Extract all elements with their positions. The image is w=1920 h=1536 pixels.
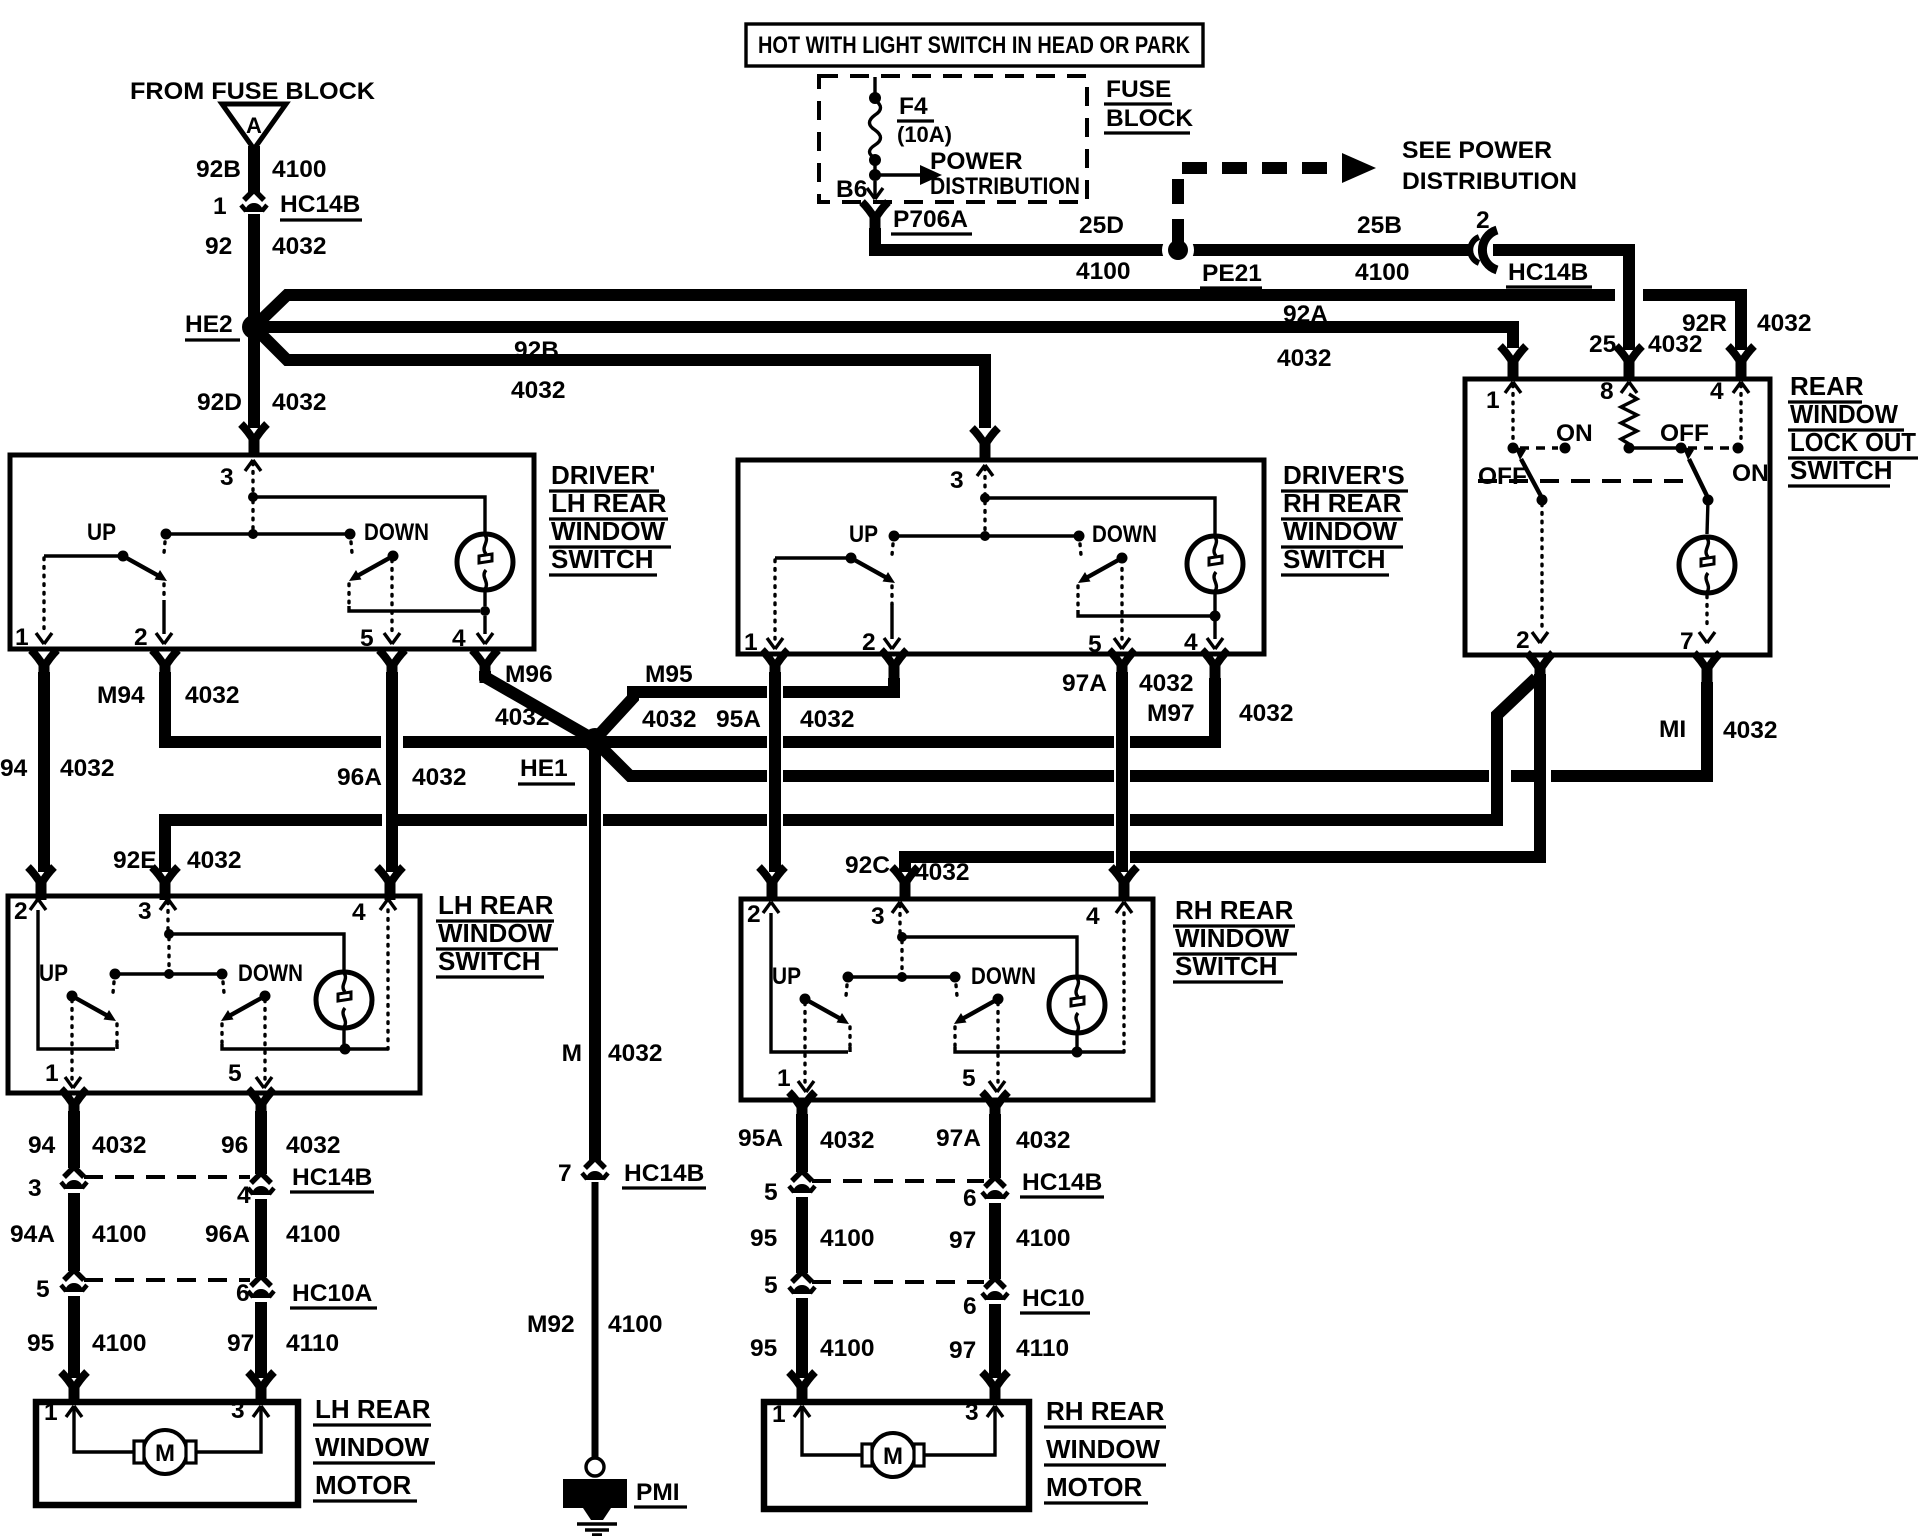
wire lamp to pin 4 [1213, 616, 1216, 639]
indicator lamp (lockout switch) [1679, 537, 1735, 593]
svg-text:4100: 4100 [820, 1225, 875, 1252]
junction dot [869, 154, 881, 166]
svg-text:4110: 4110 [1016, 1335, 1069, 1362]
wire 94 4032 [68, 1111, 80, 1168]
svg-text:7: 7 [1680, 628, 1694, 655]
svg-text:HC10A: HC10A [292, 1280, 373, 1307]
svg-text:96: 96 [221, 1132, 248, 1159]
svg-text:WINDOW: WINDOW [1046, 1434, 1161, 1464]
svg-text:5: 5 [962, 1065, 976, 1092]
connector Y into LH rear switch pin 4 [377, 867, 403, 900]
svg-text:4: 4 [1184, 629, 1198, 656]
svg-text:UP: UP [87, 519, 116, 546]
svg-text:LH REAR: LH REAR [315, 1394, 431, 1424]
pin 2 arrow [30, 899, 46, 910]
connector 5 HC10A (in-line) [61, 1270, 87, 1292]
svg-text:4032: 4032 [1277, 345, 1332, 372]
svg-text:(10A): (10A) [897, 122, 952, 147]
node center feed [248, 529, 258, 539]
node lamp bottom junction [1210, 611, 1221, 622]
svg-text:F4: F4 [899, 93, 928, 120]
svg-text:4032: 4032 [1239, 700, 1294, 727]
pin 2 arrow [884, 638, 900, 649]
switch DOWN contact (RH rear) [950, 972, 1004, 1025]
svg-text:5: 5 [36, 1276, 50, 1303]
svg-text:5: 5 [1088, 631, 1102, 658]
svg-text:4110: 4110 [286, 1330, 339, 1357]
wire lamp to pin 4 [483, 616, 486, 634]
pin 2 arrow [156, 633, 172, 644]
connector 2 HC14B (in-line on wire 25B) [1470, 237, 1479, 263]
pin 7 arrow [1699, 632, 1715, 643]
svg-text:FUSE: FUSE [1106, 76, 1171, 103]
connector Y below lockout pin 2 [1527, 653, 1553, 686]
svg-text:92B: 92B [514, 337, 559, 364]
svg-text:LOCK OUT: LOCK OUT [1790, 427, 1916, 457]
svg-text:HC14B: HC14B [292, 1164, 372, 1191]
pin 4 arrow [380, 899, 396, 910]
svg-text:P706A: P706A [893, 206, 968, 233]
svg-text:2: 2 [14, 898, 28, 925]
wire UP blade tip to pin2 line [115, 1024, 118, 1044]
pin 4 arrow [1116, 902, 1132, 913]
svg-text:4032: 4032 [185, 682, 240, 709]
connector triangle A (from fuse block) [222, 104, 286, 149]
svg-text:4032: 4032 [800, 706, 855, 733]
pin 1 arrow [767, 638, 783, 649]
wire 95 4100 [68, 1296, 80, 1378]
wire lamp to pin 7 [1705, 596, 1708, 629]
wire 92D 4032 (HE2 down to LH driver switch) [248, 334, 260, 428]
svg-text:5: 5 [764, 1179, 778, 1206]
wire to lamp top [169, 934, 344, 972]
wire 96A 4032 (driver LH pin5 down to LH switch pin 4) [386, 672, 398, 872]
motor internal wiring [802, 1409, 995, 1455]
connector Y below driver LH pin 5 [379, 650, 405, 683]
motor M1 symbol [134, 1430, 196, 1474]
wire 96 4032 [255, 1111, 267, 1174]
arrow to POWER DISTRIBUTION [875, 173, 925, 176]
pin 1 arrow [66, 1406, 82, 1417]
svg-text:HC14B: HC14B [280, 191, 360, 218]
svg-text:4100: 4100 [1355, 259, 1410, 286]
wire 92B 4100 [248, 146, 260, 192]
wire pin 2 to UP lower contact [38, 910, 115, 1049]
svg-text:3: 3 [138, 898, 152, 925]
pin 2 arrow [1532, 632, 1548, 643]
connector Y into LH rear switch pin 3 [152, 867, 178, 900]
wire 97 4100 [989, 1203, 1001, 1279]
wire right blade to lamp [1707, 500, 1708, 534]
connector Y below RH switch pin 1 [789, 1092, 815, 1125]
node junction below pin 3 [248, 492, 258, 502]
svg-text:3: 3 [28, 1175, 42, 1202]
svg-text:BLOCK: BLOCK [1106, 105, 1193, 132]
svg-text:4032: 4032 [511, 377, 566, 404]
wire DOWN blade tip to lamp bottom [953, 1027, 956, 1047]
pin 1 arrow [794, 1406, 810, 1417]
svg-text:95A: 95A [738, 1125, 783, 1152]
switch UP contact (LH rear) [67, 969, 121, 1022]
connector Y into RH rear switch pin 2 [759, 867, 785, 900]
wire UP blade tip to pin2 line [848, 1027, 851, 1047]
wire lamp junction to pin 4 [1077, 1050, 1124, 1053]
svg-text:M: M [562, 1040, 582, 1067]
wire lamp junction to pin 4 [345, 1047, 388, 1050]
wire 92E 4032 (lockout pin2 via diagonal, left to LH switch pin 3) [1130, 678, 1536, 820]
svg-text:1: 1 [744, 629, 758, 656]
dashed connector boundary HC14B (LH) [84, 1175, 250, 1179]
connector HC14B pin 1 [241, 190, 267, 212]
svg-text:ON: ON [1732, 460, 1769, 487]
pin 4 arrow [477, 633, 493, 644]
svg-text:B6: B6 [836, 176, 867, 203]
connector 6 HC14B (in-line, RH) [982, 1177, 1008, 1199]
connector 6 HC10A (in-line) [248, 1276, 274, 1298]
wire M97 4032 (HE1 right to driver RH pin 4) [603, 736, 767, 748]
connector Y below driver RH pin 5 [1109, 650, 1135, 683]
node center feed [164, 969, 174, 979]
connector Y into LH driver switch pin 3 [241, 424, 267, 457]
svg-text:WINDOW: WINDOW [551, 516, 666, 546]
wire pin 1 to UP pivot [775, 556, 851, 559]
wire 95 4100 lower [796, 1298, 808, 1378]
node lamp bottom junction [480, 606, 490, 616]
wire to lamp top [253, 497, 485, 533]
junction dot [869, 92, 881, 104]
svg-text:4100: 4100 [820, 1335, 875, 1362]
svg-text:2: 2 [1476, 207, 1490, 234]
svg-text:HE2: HE2 [185, 311, 233, 338]
pin 2 arrow [763, 902, 779, 913]
motor internal wiring [74, 1409, 261, 1452]
svg-text:DOWN: DOWN [971, 963, 1036, 990]
svg-text:M92: M92 [527, 1311, 575, 1338]
pin 8 arrow [1621, 382, 1637, 393]
dashed connector boundary HC14B (RH) [812, 1179, 984, 1183]
svg-text:HC14B: HC14B [1022, 1169, 1102, 1196]
svg-text:4032: 4032 [60, 755, 115, 782]
wire 94 4032 (driver LH pin1 down to LH switch pin 2) [38, 672, 50, 872]
svg-text:HC10: HC10 [1022, 1285, 1085, 1312]
connector P706A [862, 202, 888, 235]
svg-text:POWER: POWER [930, 148, 1023, 175]
svg-text:1: 1 [15, 624, 29, 651]
motor M2 symbol [862, 1433, 924, 1477]
svg-text:OFF: OFF [1478, 463, 1527, 490]
connector 6 HC10 (in-line, RH) [982, 1278, 1008, 1300]
svg-text:ON: ON [1556, 420, 1593, 447]
svg-text:6: 6 [236, 1280, 250, 1307]
pin 5 arrow [989, 1081, 1005, 1092]
svg-text:M94: M94 [97, 682, 145, 709]
svg-text:M97: M97 [1147, 700, 1195, 727]
svg-text:WINDOW: WINDOW [315, 1432, 430, 1462]
svg-text:7: 7 [558, 1160, 572, 1187]
connector 5 HC14B (in-line, RH) [789, 1171, 815, 1193]
connector Y below driver RH pin 1 [762, 650, 788, 683]
blade left (lockout) [1521, 459, 1542, 498]
node junction below pin 3 [897, 932, 907, 942]
wire DOWN pivot to pin 5 [996, 1003, 999, 1084]
indicator lamp (LH rear switch) [316, 972, 372, 1028]
svg-text:A: A [246, 113, 262, 138]
switch box S1 driver LH rear window switch [10, 455, 534, 649]
fuse block dashed box [819, 76, 1087, 202]
svg-text:4100: 4100 [1016, 1225, 1071, 1252]
wire UP blade to pin 2 [162, 584, 165, 600]
connector Y into lockout pin 4 [1728, 346, 1754, 379]
node lamp bottom junction [1072, 1047, 1083, 1058]
svg-text:97: 97 [949, 1337, 976, 1364]
svg-text:97A: 97A [936, 1125, 981, 1152]
svg-text:4100: 4100 [92, 1221, 147, 1248]
svg-text:RH REAR: RH REAR [1283, 488, 1402, 518]
svg-text:4: 4 [1710, 378, 1724, 405]
pin 1 arrow [65, 1077, 81, 1088]
svg-text:HE1: HE1 [520, 755, 568, 782]
svg-text:WINDOW: WINDOW [1283, 516, 1398, 546]
svg-text:WINDOW: WINDOW [438, 918, 553, 948]
svg-text:1: 1 [1486, 387, 1500, 414]
wire UP pivot to pin 1 [70, 1000, 73, 1080]
svg-text:1: 1 [45, 1060, 59, 1087]
svg-text:92: 92 [205, 233, 232, 260]
wire DOWN blade to corner to lamp bottom [347, 584, 350, 606]
svg-text:97: 97 [227, 1330, 254, 1357]
svg-text:25B: 25B [1357, 212, 1402, 239]
svg-text:M95: M95 [645, 661, 693, 688]
pin 3 arrow [245, 460, 261, 471]
wire 92A 4032 (HE2 middle to lockout pin 1) [260, 327, 1513, 348]
wire M96 4032 (driver LH pin4 diagonal to HE1) [485, 671, 593, 739]
switch box S2 driver RH rear window switch [738, 460, 1264, 654]
wire M95 4032 (HE1 diagonal up to driver RH pin 2) [598, 692, 767, 736]
pin B6 arrow down [873, 181, 876, 198]
svg-text:3: 3 [950, 467, 964, 494]
wire M 4032 (HE1 down) [589, 749, 601, 1160]
svg-text:PE21: PE21 [1202, 260, 1262, 287]
svg-text:2: 2 [134, 624, 148, 651]
svg-text:97: 97 [949, 1227, 976, 1254]
svg-text:3: 3 [965, 1399, 979, 1426]
svg-text:4100: 4100 [286, 1221, 341, 1248]
svg-text:5: 5 [764, 1272, 778, 1299]
svg-text:3: 3 [871, 903, 885, 930]
svg-text:SWITCH: SWITCH [1283, 544, 1386, 574]
svg-text:SWITCH: SWITCH [551, 544, 654, 574]
svg-text:4032: 4032 [495, 704, 550, 731]
wire to lamp top [985, 498, 1215, 535]
svg-text:LH REAR: LH REAR [551, 488, 667, 518]
wire DOWN pivot to pin 5 [1120, 560, 1123, 639]
svg-text:94A: 94A [10, 1221, 55, 1248]
connector Y into RH rear switch pin 3 [892, 867, 918, 900]
connector Y into RH motor pin 1 [789, 1372, 815, 1405]
connector 5 HC10 (in-line, RH) [789, 1272, 815, 1294]
svg-text:2: 2 [747, 901, 761, 928]
wire 92 4032 [248, 214, 260, 320]
svg-text:8: 8 [1600, 378, 1614, 405]
svg-text:FROM FUSE BLOCK: FROM FUSE BLOCK [130, 78, 375, 105]
wire center to contacts [166, 532, 350, 535]
wire left blade to pin 2 [1540, 504, 1543, 629]
svg-text:4032: 4032 [286, 1132, 341, 1159]
svg-text:4032: 4032 [412, 764, 467, 791]
wire pin 1 to UP pivot [44, 554, 123, 557]
svg-text:4032: 4032 [92, 1132, 147, 1159]
switch DOWN contact (driver LH) [345, 529, 399, 582]
resistor (lockout lamp dropping) [1621, 394, 1637, 444]
svg-text:97A: 97A [1062, 670, 1107, 697]
svg-text:4032: 4032 [608, 1040, 663, 1067]
wire into fuse F4 [873, 77, 876, 94]
svg-text:UP: UP [772, 963, 801, 990]
svg-text:WINDOW: WINDOW [1790, 399, 1898, 429]
svg-text:1: 1 [777, 1065, 791, 1092]
wire DOWN pivot to pin 5 [263, 1000, 266, 1080]
node ON contact left [1560, 443, 1571, 454]
switch DOWN contact (driver RH) [1074, 531, 1128, 584]
svg-text:SWITCH: SWITCH [1790, 455, 1893, 485]
pin 5 arrow [256, 1077, 272, 1088]
motor box M1 LH rear window motor [36, 1402, 298, 1505]
wire 97 4110 lower [989, 1304, 1001, 1378]
svg-text:4032: 4032 [272, 233, 327, 260]
svg-text:95: 95 [750, 1335, 777, 1362]
wire UP blade to pin 2 [890, 586, 893, 604]
connector Y below LH switch pin 5 [248, 1089, 274, 1122]
svg-text:1: 1 [44, 1399, 58, 1426]
callout box HOT WITH LIGHT SWITCH IN HEAD OR PARK [746, 24, 1203, 66]
wire 92C 4032 (lockout pin2 down, left to RH switch pin 3) [1130, 674, 1540, 857]
pin 5 arrow [384, 633, 400, 644]
wire 95A 4032 [796, 1114, 808, 1172]
svg-text:4: 4 [352, 899, 366, 926]
indicator lamp (driver RH switch) [1187, 536, 1243, 592]
connector 7 HC14B (in-line on M wire) [582, 1158, 608, 1180]
indicator lamp (RH rear switch) [1049, 977, 1105, 1033]
svg-text:REAR: REAR [1790, 371, 1864, 401]
splice PE21 [1162, 234, 1194, 266]
svg-text:96A: 96A [337, 764, 382, 791]
svg-text:SWITCH: SWITCH [1175, 951, 1278, 981]
connector Y into RH rear switch pin 4 [1111, 867, 1137, 900]
svg-text:DISTRIBUTION: DISTRIBUTION [1402, 168, 1577, 195]
svg-text:94: 94 [28, 1132, 56, 1159]
svg-text:94: 94 [0, 755, 28, 782]
svg-text:4100: 4100 [1076, 258, 1131, 285]
svg-text:RH REAR: RH REAR [1046, 1396, 1165, 1426]
pin 4 arrow [1733, 382, 1749, 393]
dashed power feed to SEE POWER DISTRIBUTION [1178, 168, 1340, 244]
splice HE2 [242, 315, 266, 339]
connector Y below driver RH pin 2 [881, 650, 907, 683]
wire MI 4032 (HE1 diagonal down, right to lockout pin 7) [599, 745, 767, 776]
node center feed [980, 531, 990, 541]
connector Y below lockout pin 7 [1694, 653, 1720, 686]
connector Y below driver LH pin 1 [31, 650, 57, 683]
svg-text:SWITCH: SWITCH [438, 946, 541, 976]
indicator lamp (driver LH switch) [457, 534, 513, 590]
dashed connector boundary HC10 (RH) [812, 1280, 984, 1284]
svg-text:92C: 92C [845, 852, 890, 879]
node center feed [897, 972, 907, 982]
svg-text:DOWN: DOWN [1092, 521, 1157, 548]
svg-text:MI: MI [1659, 716, 1686, 743]
svg-text:4032: 4032 [915, 859, 970, 886]
connector Y below driver LH pin 4 [472, 650, 498, 683]
junction dot [869, 169, 881, 181]
wire M94 4032 (driver LH pin2 to HE1) [165, 672, 381, 742]
connector Y below RH switch pin 5 [982, 1092, 1008, 1125]
svg-text:HC14B: HC14B [624, 1160, 704, 1187]
svg-text:4032: 4032 [820, 1127, 875, 1154]
svg-text:DISTRIBUTION: DISTRIBUTION [930, 173, 1080, 200]
wire center to contacts [115, 972, 222, 975]
svg-text:4100: 4100 [272, 156, 327, 183]
svg-text:95A: 95A [716, 706, 761, 733]
svg-text:4: 4 [1086, 903, 1100, 930]
svg-text:4100: 4100 [608, 1311, 663, 1338]
switch box S4 LH rear window switch [8, 896, 420, 1093]
svg-text:1: 1 [772, 1401, 786, 1428]
svg-text:2: 2 [862, 629, 876, 656]
blade right (lockout) [1689, 459, 1708, 498]
ground PMI [586, 1458, 604, 1476]
svg-text:92A: 92A [1283, 301, 1328, 328]
contact pin 1 [1508, 443, 1519, 454]
svg-text:4032: 4032 [1723, 717, 1778, 744]
connector Y below driver RH pin 4 [1202, 650, 1228, 683]
svg-text:4032: 4032 [1016, 1127, 1071, 1154]
connector 4 HC14B (in-line) [248, 1173, 274, 1195]
wire DOWN blade to corner to lamp bottom [1076, 586, 1079, 610]
pin 3 arrow [977, 465, 993, 476]
wire 97A 4032 [989, 1114, 1001, 1178]
svg-text:4100: 4100 [92, 1330, 147, 1357]
connector Y into LH motor pin 1 [61, 1372, 87, 1405]
switch UP contact (driver RH) [846, 531, 900, 584]
svg-text:M96: M96 [505, 661, 553, 688]
svg-text:92D: 92D [197, 389, 242, 416]
svg-text:3: 3 [220, 464, 234, 491]
connector Y into LH rear switch pin 2 [28, 867, 54, 900]
wire 96A 4100 [255, 1199, 267, 1277]
wire center to contacts [848, 975, 955, 978]
fuse F4 squiggle [870, 100, 881, 158]
wire 95 4100 [796, 1197, 808, 1273]
wire to lamp top [902, 937, 1077, 976]
connector 3 HC14B (in-line) [61, 1167, 87, 1189]
svg-text:6: 6 [963, 1293, 977, 1320]
svg-text:UP: UP [39, 960, 68, 987]
wire center to contacts [894, 534, 1079, 537]
svg-text:3: 3 [231, 1397, 245, 1424]
svg-text:25D: 25D [1079, 212, 1124, 239]
svg-text:RH REAR: RH REAR [1175, 895, 1294, 925]
pin 3 arrow [892, 902, 908, 913]
svg-text:DOWN: DOWN [364, 519, 429, 546]
svg-text:UP: UP [849, 521, 878, 548]
svg-text:4032: 4032 [1648, 331, 1703, 358]
connector Y into lockout pin 8 [1616, 346, 1642, 379]
svg-text:5: 5 [228, 1060, 242, 1087]
pin 4 arrow [1207, 638, 1223, 649]
svg-text:1: 1 [213, 193, 227, 220]
node junction below pin 3 [164, 929, 174, 939]
wire UP pivot to pin 1 [803, 1003, 806, 1084]
